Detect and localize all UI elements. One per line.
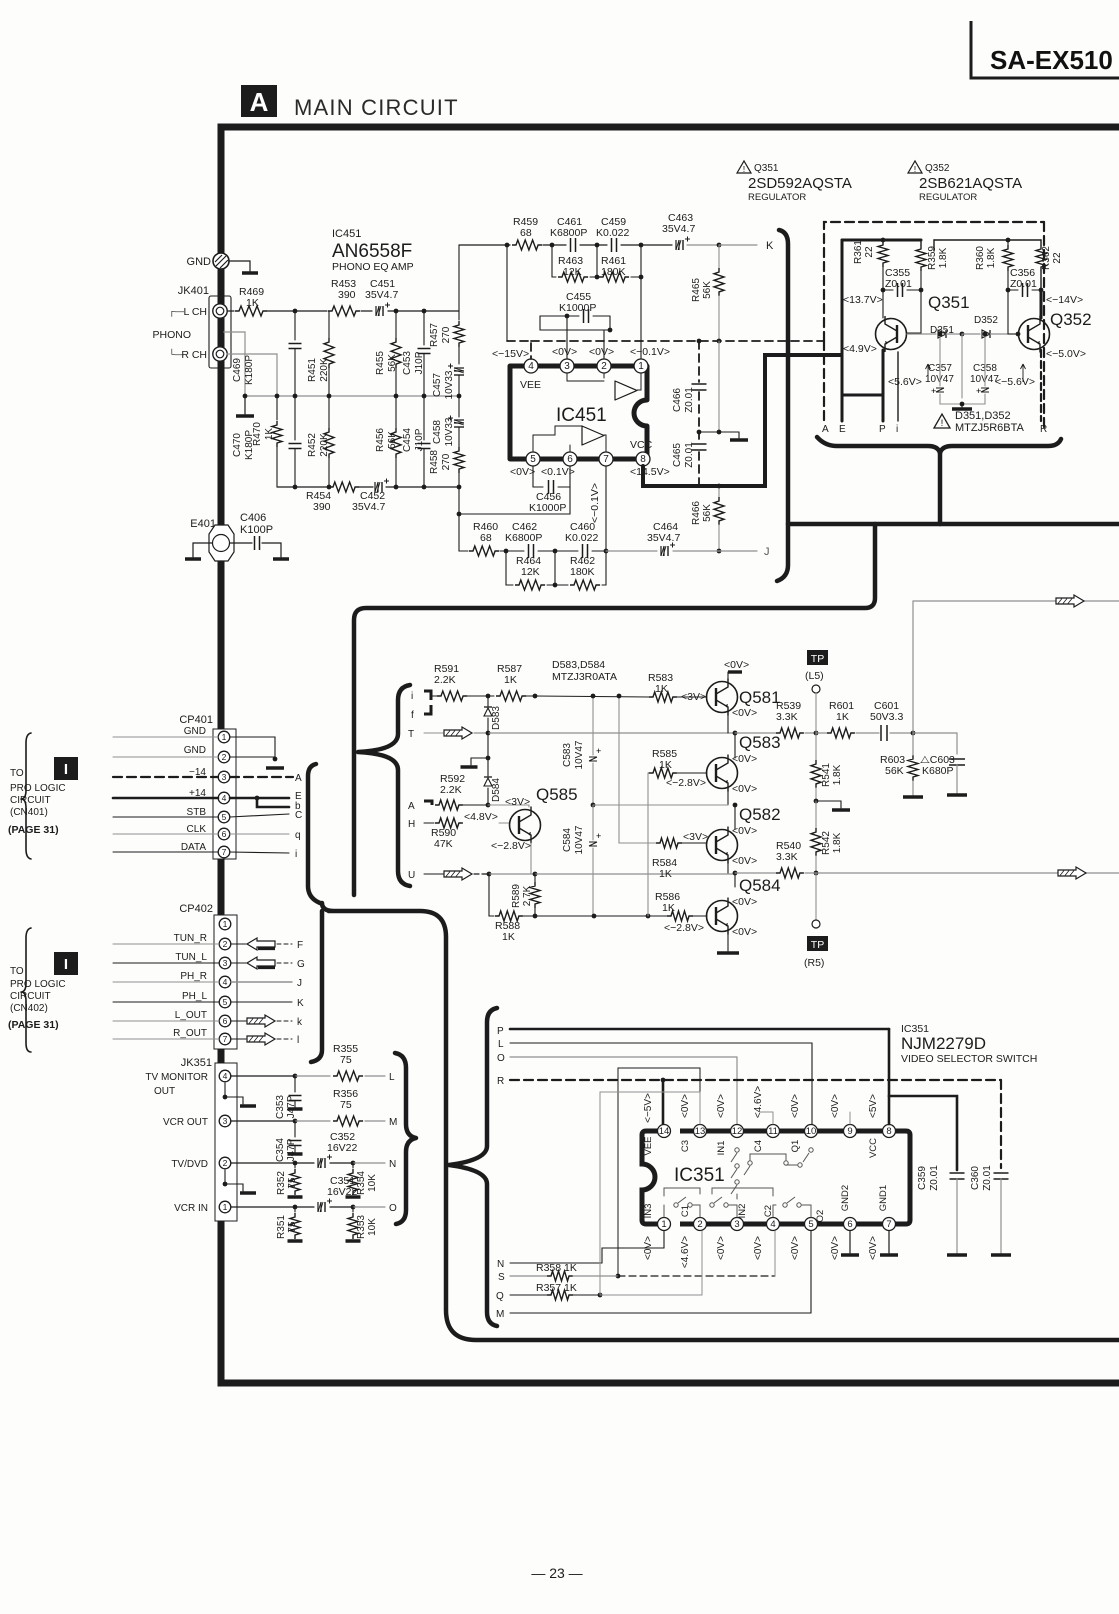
svg-text:Z0.01: Z0.01 <box>885 278 912 290</box>
svg-text:Q: Q <box>496 1291 504 1302</box>
svg-text:l: l <box>297 1035 299 1046</box>
svg-text:R589: R589 <box>511 884 522 908</box>
svg-text:R: R <box>1040 424 1047 435</box>
svg-text:6: 6 <box>223 1016 228 1026</box>
svg-text:<0V>: <0V> <box>716 1236 727 1260</box>
resistor R586 <box>655 891 707 934</box>
svg-text:STB: STB <box>187 807 207 818</box>
svg-text:<−2.8V>: <−2.8V> <box>664 922 704 934</box>
wire f lead <box>424 705 431 714</box>
svg-text:K: K <box>297 998 304 1009</box>
svg-text:<0V>: <0V> <box>724 659 749 671</box>
svg-text:R451: R451 <box>307 358 318 382</box>
svg-text:Q583: Q583 <box>739 733 781 752</box>
wire -15V dashed rail <box>507 245 824 359</box>
svg-text:<0V>: <0V> <box>732 926 757 938</box>
resistor R455 <box>375 311 401 396</box>
svg-text:C470: C470 <box>232 433 243 457</box>
svg-text:R455: R455 <box>375 351 386 375</box>
svg-text:R452: R452 <box>307 433 318 457</box>
resistor R351 <box>276 1207 303 1241</box>
svg-text:<3V>: <3V> <box>683 831 708 843</box>
svg-text:VEE: VEE <box>643 1136 654 1155</box>
svg-text:3: 3 <box>223 958 228 968</box>
svg-text:<4.8V>: <4.8V> <box>464 811 498 823</box>
svg-text:MTZJ3R0ATA: MTZJ3R0ATA <box>552 671 617 683</box>
resistor R540 <box>776 840 804 878</box>
node labels A E b C q i <box>295 773 302 860</box>
svg-text:56K: 56K <box>885 765 904 777</box>
capacitor C452 electrolytic <box>352 479 389 514</box>
wire gnd screw to ground <box>229 261 258 273</box>
svg-text:1K: 1K <box>502 931 515 943</box>
svg-text:IN1: IN1 <box>716 1141 727 1156</box>
svg-text:K: K <box>766 240 774 252</box>
svg-text:<4.9V>: <4.9V> <box>843 343 877 355</box>
capacitor C356 <box>1008 267 1041 297</box>
svg-text:(CN402): (CN402) <box>10 1003 48 1014</box>
svg-text:2: 2 <box>222 752 227 762</box>
svg-text:(L5): (L5) <box>805 670 824 682</box>
svg-text:<0V>: <0V> <box>732 825 757 837</box>
svg-text:1K: 1K <box>504 674 517 686</box>
svg-text:J10P: J10P <box>414 351 425 374</box>
svg-text:12K: 12K <box>521 566 540 578</box>
label Q351 voltages <box>843 294 883 355</box>
svg-text:C453: C453 <box>402 351 413 375</box>
svg-text:7: 7 <box>603 454 609 465</box>
resistor R592 <box>424 773 529 810</box>
svg-text:CLK: CLK <box>187 824 207 835</box>
svg-text:4: 4 <box>223 1071 228 1081</box>
svg-text:J: J <box>764 546 770 558</box>
svg-text:3.3K: 3.3K <box>776 711 798 723</box>
ground Q584 emitter <box>717 930 739 953</box>
label Q352 2SB621AQSTA <box>908 161 1022 203</box>
svg-text:2SD592AQSTA: 2SD592AQSTA <box>748 175 852 192</box>
capacitor C358 electrolytic <box>962 332 999 404</box>
svg-text:R359: R359 <box>927 246 938 270</box>
capacitor C352 <box>318 1131 358 1168</box>
svg-text:3: 3 <box>734 1219 739 1230</box>
resistor R356 <box>333 1088 363 1126</box>
svg-text:K680P: K680P <box>922 765 954 777</box>
svg-text:R351: R351 <box>276 1215 287 1239</box>
svg-text:PRO LOGIC: PRO LOGIC <box>10 979 66 990</box>
svg-text:4: 4 <box>222 793 227 803</box>
svg-text:VIDEO SELECTOR SWITCH: VIDEO SELECTOR SWITCH <box>901 1053 1037 1065</box>
svg-text:GND2: GND2 <box>840 1185 851 1211</box>
regulator dashed box <box>824 222 1044 428</box>
capacitor C464 electrolytic <box>647 521 680 556</box>
svg-text:REGULATOR: REGULATOR <box>748 192 806 203</box>
label Q351 2SD592AQSTA <box>737 161 852 203</box>
svg-text:IC351: IC351 <box>674 1165 725 1186</box>
svg-text:<−5.6V>: <−5.6V> <box>995 376 1035 388</box>
wire phono bottom bus <box>277 485 459 490</box>
op-amp IC451 body <box>510 366 647 459</box>
svg-text:4: 4 <box>528 361 534 372</box>
wire CP401 left harness <box>113 737 218 852</box>
capacitor C601 <box>870 700 903 741</box>
svg-text:14: 14 <box>659 1126 670 1137</box>
svg-text:SA-EX510: SA-EX510 <box>990 45 1113 75</box>
resistor R354 <box>346 1163 379 1197</box>
svg-text:M: M <box>389 1117 397 1128</box>
connector CP402 <box>179 903 237 1049</box>
resistor R470 <box>252 396 282 487</box>
svg-text:C583: C583 <box>562 743 573 767</box>
svg-text:<0V>: <0V> <box>732 896 757 908</box>
svg-text:<0V>: <0V> <box>753 1236 764 1260</box>
wire N row <box>510 1231 664 1263</box>
svg-text:CP401: CP401 <box>179 714 213 726</box>
svg-text:R_OUT: R_OUT <box>173 1028 207 1039</box>
wire CP401 gnd net <box>230 737 284 768</box>
resistor R591 <box>434 663 490 701</box>
svg-text:R465: R465 <box>691 278 702 302</box>
node labels A E P i R <box>822 424 1047 435</box>
svg-text:M: M <box>496 1309 504 1320</box>
svg-text:7: 7 <box>886 1219 891 1230</box>
svg-text:1.8K: 1.8K <box>938 247 949 268</box>
svg-text:VEE: VEE <box>520 379 541 391</box>
svg-text:13: 13 <box>695 1126 706 1137</box>
transistor Q352 <box>1008 290 1092 353</box>
svg-text:C458: C458 <box>432 420 443 444</box>
label D351 D352 MTZJ5R6BTA <box>934 410 1025 434</box>
svg-text:R: R <box>497 1076 504 1087</box>
capacitor C583 electrolytic <box>562 694 601 808</box>
svg-text:2.2K: 2.2K <box>434 674 456 686</box>
svg-text:U: U <box>408 870 415 881</box>
svg-text:CIRCUIT: CIRCUIT <box>10 991 51 1002</box>
svg-text:Q352: Q352 <box>925 163 950 174</box>
svg-text:5: 5 <box>223 997 228 1007</box>
svg-text:10: 10 <box>806 1126 817 1137</box>
svg-text:10V33: 10V33 <box>444 417 455 446</box>
svg-text:C353: C353 <box>275 1095 286 1119</box>
wire regulator top rail <box>842 238 1041 421</box>
svg-text:C359: C359 <box>917 1166 928 1190</box>
node labels F G J K k l <box>297 940 305 1046</box>
svg-text:3: 3 <box>223 1116 228 1126</box>
wire switch links <box>664 1154 788 1199</box>
svg-text:IC451: IC451 <box>556 405 607 426</box>
svg-text:270: 270 <box>441 453 452 470</box>
svg-text:R456: R456 <box>375 428 386 452</box>
svg-text:16V22: 16V22 <box>327 1186 358 1198</box>
svg-text:L: L <box>389 1072 395 1083</box>
label D583 D584 MTZJ3R0ATA <box>552 659 617 683</box>
svg-text:J: J <box>297 978 302 989</box>
resistor R454 <box>306 482 359 513</box>
capacitor C469 <box>232 311 302 396</box>
IC351 bottom pins <box>658 1218 896 1231</box>
resistor R459 <box>512 216 542 250</box>
svg-text:<0V>: <0V> <box>732 783 757 795</box>
JK351 pin labels <box>145 1072 208 1214</box>
svg-text:<0V>: <0V> <box>830 1236 841 1260</box>
svg-text:T: T <box>408 729 414 740</box>
svg-text:D351,D352: D351,D352 <box>955 410 1011 422</box>
wire M row <box>510 1231 811 1313</box>
capacitor C461 <box>550 216 587 252</box>
svg-text:N: N <box>497 1259 504 1270</box>
svg-text:12: 12 <box>732 1126 743 1137</box>
svg-text:C: C <box>295 810 302 821</box>
svg-text:TP: TP <box>811 939 824 951</box>
regulator bundle brace <box>817 437 1061 524</box>
IC451 pin 2 <box>589 346 614 373</box>
svg-text:<0V>: <0V> <box>510 466 535 478</box>
wire R539 rail <box>735 731 957 754</box>
svg-text:+: + <box>931 386 936 396</box>
svg-text:<14.5V>: <14.5V> <box>630 466 670 478</box>
svg-text:6: 6 <box>567 454 573 465</box>
IC451 pin 5 <box>510 452 540 478</box>
svg-text:!: ! <box>743 165 745 174</box>
svg-text:1: 1 <box>223 919 228 929</box>
wire S row R358 <box>510 1231 775 1281</box>
svg-text:2: 2 <box>223 939 228 949</box>
capacitor C455 <box>540 291 612 359</box>
resistor R584 <box>652 831 708 880</box>
svg-text:CP402: CP402 <box>179 903 213 915</box>
capacitor C603 <box>920 754 967 795</box>
svg-text:GND1: GND1 <box>878 1185 889 1211</box>
svg-text:<4.6V>: <4.6V> <box>680 1236 691 1268</box>
switch IN3 C1 <box>664 1197 700 1217</box>
svg-text:7: 7 <box>223 1034 228 1044</box>
wire K feedback row <box>459 240 774 252</box>
capacitor C457 electrolytic <box>432 364 464 400</box>
resistor R452 <box>307 396 334 487</box>
resistor R465 <box>691 245 724 343</box>
svg-text:D584: D584 <box>491 778 502 802</box>
svg-text:22: 22 <box>1052 252 1063 264</box>
svg-text:180K: 180K <box>570 566 595 578</box>
svg-text:MAIN CIRCUIT: MAIN CIRCUIT <box>294 95 459 120</box>
IC451 pin 6 <box>541 452 577 478</box>
svg-text:C457: C457 <box>432 373 443 397</box>
svg-text:i: i <box>295 849 297 860</box>
svg-text:A: A <box>408 801 415 812</box>
ground mid bus <box>236 394 254 416</box>
svg-text:5: 5 <box>530 454 536 465</box>
svg-text:R357 1K: R357 1K <box>536 1282 577 1294</box>
node labels N S Q M <box>496 1259 505 1320</box>
svg-text:<−0.1V>: <−0.1V> <box>589 483 601 523</box>
svg-text:VCR OUT: VCR OUT <box>163 1117 208 1128</box>
svg-text:2: 2 <box>697 1219 702 1230</box>
resistor R457 <box>429 245 464 364</box>
svg-text:K6800P: K6800P <box>505 532 542 544</box>
svg-text:E: E <box>839 424 846 435</box>
svg-text:GND: GND <box>187 256 212 268</box>
IC351 top pin labels <box>643 1086 879 1158</box>
svg-text:<0V>: <0V> <box>790 1094 801 1118</box>
resistor R588 <box>489 874 667 943</box>
wire base column x619 <box>617 694 656 843</box>
diode D352 <box>962 315 1020 338</box>
svg-text:<0V>: <0V> <box>552 346 577 358</box>
svg-text:390: 390 <box>313 501 331 513</box>
wire i lead <box>424 691 437 700</box>
svg-text:C466: C466 <box>672 388 683 412</box>
svg-text:I: I <box>64 956 68 973</box>
ground R541 node <box>816 801 850 810</box>
svg-text:9: 9 <box>847 1126 852 1137</box>
svg-text:<−2.8V>: <−2.8V> <box>491 840 531 852</box>
svg-text:JK351: JK351 <box>181 1057 212 1069</box>
svg-text:TV/DVD: TV/DVD <box>171 1159 208 1170</box>
svg-text:(PAGE 31): (PAGE 31) <box>8 824 59 836</box>
svg-text:+: + <box>596 831 601 841</box>
svg-text:R CH: R CH <box>181 349 207 361</box>
resistor R463 <box>552 245 597 282</box>
resistor R361 <box>853 240 888 293</box>
svg-text:+: + <box>596 746 601 756</box>
connector JK351 <box>181 1057 237 1221</box>
wire E401 left ground <box>185 543 212 559</box>
svg-text:MTZJ5R6BTA: MTZJ5R6BTA <box>955 422 1025 434</box>
svg-text:75: 75 <box>340 1099 352 1111</box>
svg-text:A: A <box>250 87 269 117</box>
capacitor C458 electrolytic <box>432 396 464 446</box>
capacitor C406 <box>230 512 289 559</box>
wire Q583 emitter <box>593 787 737 829</box>
ground C465 C466 node <box>697 341 748 440</box>
svg-text:JK401: JK401 <box>178 285 209 297</box>
label IC451 AN6558F <box>332 228 414 273</box>
resistor R360 <box>975 240 1013 292</box>
section label A <box>241 85 277 117</box>
svg-text:P: P <box>879 424 886 435</box>
svg-text:K180P: K180P <box>244 355 255 385</box>
svg-text:K100P: K100P <box>240 524 273 536</box>
label TO PRO LOGIC CN402 <box>8 952 78 1031</box>
svg-text:270: 270 <box>441 326 452 343</box>
capacitor C584 electrolytic <box>562 805 601 916</box>
svg-text:2SB621AQSTA: 2SB621AQSTA <box>919 175 1022 192</box>
capacitor C360 <box>970 1165 1011 1255</box>
resistor R469 <box>228 286 297 316</box>
svg-text:K1000P: K1000P <box>559 302 596 314</box>
svg-text:VCC: VCC <box>630 439 653 451</box>
svg-text:Q352: Q352 <box>1050 310 1092 329</box>
wire P line <box>510 1029 889 1096</box>
svg-text:<0V>: <0V> <box>732 753 757 765</box>
wire pin7 drop <box>604 466 609 585</box>
svg-text:L_OUT: L_OUT <box>175 1010 207 1021</box>
svg-text:(CN401): (CN401) <box>10 807 48 818</box>
jack E401 <box>190 518 234 561</box>
svg-text:<0V>: <0V> <box>868 1236 879 1260</box>
svg-text:PRO LOGIC: PRO LOGIC <box>10 783 66 794</box>
svg-text:11: 11 <box>768 1126 778 1137</box>
svg-text:H: H <box>408 819 415 830</box>
capacitor C451 electrolytic <box>365 278 398 316</box>
svg-text:<3V>: <3V> <box>505 796 530 808</box>
wire U row <box>424 868 737 880</box>
svg-text:5: 5 <box>808 1219 813 1230</box>
svg-text:R360: R360 <box>975 246 986 270</box>
svg-text:TUN_R: TUN_R <box>174 933 207 944</box>
svg-text:<5.6V>: <5.6V> <box>888 376 922 388</box>
svg-text:(R5): (R5) <box>804 957 824 969</box>
svg-text:Z0.01: Z0.01 <box>1010 278 1037 290</box>
op-amp IC351 body <box>642 1131 910 1224</box>
resistor R603 <box>880 733 923 797</box>
diode D351 <box>907 325 964 338</box>
transistor Q581 <box>707 659 781 719</box>
node labels L M N O <box>389 1072 397 1214</box>
capacitor C470 <box>232 396 302 487</box>
svg-text:16V22: 16V22 <box>327 1142 358 1154</box>
svg-text:C465: C465 <box>672 443 683 467</box>
diode D583 <box>484 696 502 733</box>
svg-text:1K: 1K <box>659 868 672 880</box>
wire L_OUT long line <box>913 595 1119 733</box>
svg-text:<−15V>: <−15V> <box>492 348 529 360</box>
wire trunk CP401 junction <box>322 903 1119 1340</box>
svg-text:TUN_L: TUN_L <box>175 952 207 963</box>
svg-text:1: 1 <box>222 732 227 742</box>
svg-text:<−14V>: <−14V> <box>1046 294 1083 306</box>
resistor R466 <box>691 484 724 554</box>
svg-text:R457: R457 <box>429 323 440 347</box>
svg-text:5: 5 <box>222 812 227 822</box>
svg-text:C2: C2 <box>763 1205 774 1217</box>
svg-text:REGULATOR: REGULATOR <box>919 192 977 203</box>
svg-text:50V3.3: 50V3.3 <box>870 711 903 723</box>
wire pin5 pin6 C456 row <box>459 466 570 514</box>
svg-text:C360: C360 <box>970 1166 981 1190</box>
svg-text:68: 68 <box>520 227 532 239</box>
svg-text:35V4.7: 35V4.7 <box>365 289 398 301</box>
wire trunk K drop <box>777 230 788 581</box>
resistor R456 <box>375 396 401 487</box>
svg-text:GND: GND <box>184 745 206 756</box>
svg-text:TO: TO <box>10 768 24 779</box>
schematic frame <box>221 127 1119 1383</box>
label TO PRO LOGIC CN401 <box>8 757 78 836</box>
CP402 pin labels <box>173 933 207 1039</box>
label IC351 NJM2279D <box>901 1023 1037 1065</box>
capacitor C453 <box>402 311 431 396</box>
switch IN1 chain <box>731 1148 739 1194</box>
svg-text:10V33: 10V33 <box>444 370 455 399</box>
capacitor C465 <box>672 442 707 468</box>
svg-text:<−5V>: <−5V> <box>643 1093 654 1123</box>
IC451 pin 3 <box>552 346 577 373</box>
resistor R583 <box>648 672 707 703</box>
svg-text:K6800P: K6800P <box>550 227 587 239</box>
test point TP L5 <box>805 650 828 733</box>
resistor R587 <box>488 663 649 701</box>
svg-text:VCR IN: VCR IN <box>174 1203 208 1214</box>
svg-text:<0V>: <0V> <box>732 855 757 867</box>
wire R line dashed <box>510 1078 1001 1168</box>
svg-text:Q351: Q351 <box>928 293 970 312</box>
svg-text:1K: 1K <box>836 711 849 723</box>
svg-text:S: S <box>498 1272 505 1283</box>
svg-text:56K: 56K <box>702 504 713 522</box>
resistor R352 <box>276 1163 303 1197</box>
resistor R464 <box>506 551 557 590</box>
ground D584 node <box>461 756 491 767</box>
